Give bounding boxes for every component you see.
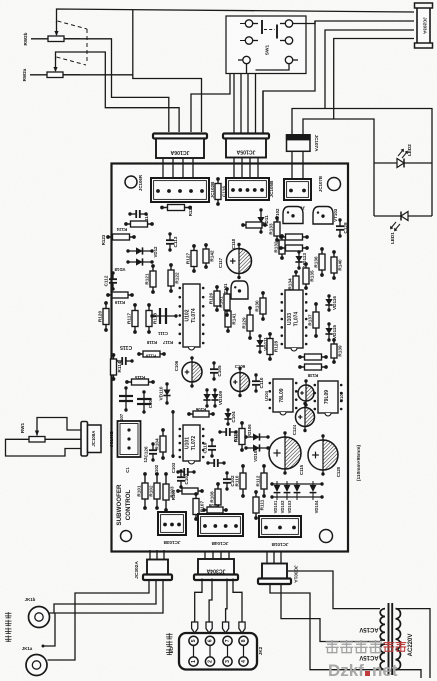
capacitor C109	[231, 364, 250, 397]
resistor R135	[303, 262, 315, 290]
resistor R131	[241, 222, 267, 228]
wire JC301A to transformer tap	[281, 584, 380, 642]
diode VD108	[203, 388, 210, 407]
resistor R115	[125, 375, 155, 385]
resistor R120	[97, 301, 109, 332]
wire stubs JC104B to JC304A	[204, 551, 206, 559]
diode VD106	[244, 424, 269, 441]
capacitor C123	[296, 402, 315, 432]
capacitor C118	[218, 243, 252, 279]
resistor R107	[193, 492, 205, 521]
resistor R129	[241, 306, 253, 340]
wire JC301A to transformer top	[288, 571, 380, 609]
capacitor C114	[128, 210, 149, 224]
resistor R136	[313, 247, 325, 277]
wire JC203A pin3	[325, 30, 414, 109]
mounting hole JC106R	[125, 174, 143, 191]
connector JK2	[179, 622, 263, 670]
capacitor C127	[206, 459, 225, 467]
wire SW1 bottom-left circle stub	[246, 63, 248, 73]
wire stubs JC107A into board	[291, 152, 293, 180]
potentiometer RW1	[20, 421, 45, 442]
capacitor C115b	[269, 431, 304, 475]
IC U104	[269, 379, 298, 415]
resistor R143	[298, 364, 328, 378]
diode VD116	[325, 294, 336, 311]
wire JC304A pin3 to JK2	[226, 579, 227, 623]
resistor R103	[163, 472, 175, 512]
resistor R101	[136, 472, 148, 510]
diode VD109	[211, 388, 222, 407]
resistor R119	[106, 292, 134, 305]
capacitor C105	[210, 361, 222, 380]
diode VD11	[257, 208, 268, 233]
IC U105	[314, 381, 343, 416]
capacitor C128	[336, 218, 348, 237]
resistor R106	[187, 407, 215, 417]
connector JC105A	[223, 134, 269, 158]
resistor R123	[101, 234, 136, 245]
wire SW1 bottom-right circle stub	[256, 63, 290, 70]
wire SW1 pins to JC105A	[233, 74, 235, 133]
resistor R122	[168, 263, 180, 293]
capacitor C108	[137, 390, 153, 413]
connector JC102B	[151, 178, 215, 202]
wire JC302A pin1 to JK1a	[48, 580, 150, 660]
diode VD105	[244, 444, 269, 461]
capacitor C102	[223, 471, 235, 490]
switch SW1	[226, 16, 306, 74]
wire JC302A pin2 to JK1b	[50, 580, 157, 613]
wire SW1 to JC106A pin3	[191, 73, 230, 132]
wire RW1 right lead	[45, 438, 81, 440]
potentiometer RW2b	[23, 22, 80, 45]
wire mid vertical	[172, 410, 174, 458]
transistor VT101	[223, 281, 248, 299]
wire RW2a wiper to JC106A pin2	[56, 52, 180, 132]
IC U102	[179, 284, 205, 350]
wire JC107A pinB to LED rail inner	[303, 119, 374, 216]
resistor R138	[298, 354, 328, 360]
connector JC203A	[415, 3, 433, 48]
connector JC301A	[258, 564, 299, 585]
resistor R110	[234, 464, 246, 498]
IC U103	[281, 290, 308, 351]
resistor R104	[154, 428, 166, 460]
capacitor C122	[298, 379, 314, 406]
resistor R111	[253, 490, 265, 520]
connector JC105B	[226, 178, 274, 200]
wire JC203A pin4	[334, 39, 414, 120]
resistor R133	[268, 216, 280, 242]
resistor R134	[287, 270, 299, 298]
resistor R116	[137, 351, 166, 359]
resistor R121	[144, 264, 156, 294]
connector JC103B	[158, 512, 186, 545]
transistor VT102	[275, 207, 303, 224]
wire RW2b lead to JC106A pin1	[64, 39, 169, 132]
wire JC302A pin3 ground	[43, 580, 163, 646]
capacitor C113b	[114, 357, 133, 365]
wire RW2a lead to junction	[63, 74, 133, 76]
transformer T1	[380, 603, 400, 675]
connector JC108A	[81, 422, 101, 457]
capacitor C110	[252, 373, 264, 392]
wire JC107A pinA to LED rail right	[292, 109, 432, 217]
resistor R126	[208, 285, 220, 312]
diode bridge VD101-VD104	[270, 481, 323, 513]
wire RW2b wiper to JC203A	[57, 9, 415, 23]
resistor R118	[146, 303, 158, 334]
resistor R161	[218, 287, 230, 317]
text audio input	[5, 612, 12, 619]
wire JC301A to transformer bottom	[270, 584, 380, 670]
connector JC304A	[194, 559, 238, 580]
transformer leads	[380, 639, 385, 641]
connector JC106A	[153, 134, 207, 159]
capacitor C119	[203, 438, 217, 457]
mounting hole bottom-right	[320, 530, 333, 543]
resistor R139	[331, 338, 343, 364]
resistor R140	[331, 250, 343, 280]
wire SW1 to JC203A pin2	[292, 21, 414, 24]
diode C104	[224, 408, 235, 425]
connector JC107A	[287, 135, 320, 153]
capacitor C111	[150, 308, 177, 336]
wire stubs JC103B to JC302A	[149, 550, 151, 560]
capacitor C121	[218, 428, 238, 442]
capacitor C113	[166, 232, 178, 251]
potentiometer RW2a	[22, 58, 80, 81]
resistor R130	[254, 291, 266, 321]
connector JC302A	[134, 560, 172, 581]
resistor R102	[148, 472, 160, 510]
resistor R145	[279, 245, 309, 251]
wire JC304A pin2 to JK2	[209, 579, 212, 623]
resistor R127	[185, 244, 197, 273]
wire AC220V top lead	[396, 609, 431, 678]
wire RW1 wiper	[37, 418, 81, 431]
watermark text	[326, 640, 407, 680]
wire AC220V bottom lead	[396, 670, 422, 678]
PCB board outline	[112, 164, 349, 552]
diode VD111	[256, 334, 267, 353]
resistor R141	[225, 305, 237, 333]
jack JK1a	[22, 646, 47, 676]
resistor R117	[126, 303, 138, 334]
LED LED2	[374, 144, 432, 168]
diode VD12	[126, 246, 158, 258]
diode VD110	[158, 382, 170, 404]
resistor C116	[215, 177, 227, 206]
resistor R105	[171, 488, 204, 500]
resistor R142	[203, 243, 215, 269]
wire junction to JC106A pin4	[133, 9, 202, 132]
gang link dashed	[57, 21, 88, 65]
jack JK1b	[25, 597, 50, 628]
resistor R114b	[111, 353, 123, 381]
resistor R108	[209, 482, 221, 512]
capacitor C101	[177, 469, 189, 488]
transistor VT103	[313, 207, 338, 225]
LED LED1	[374, 212, 432, 244]
capacitor C112	[104, 271, 118, 290]
diode VD18	[114, 258, 154, 272]
capacitor C106	[174, 356, 202, 387]
capacitor C120	[308, 434, 341, 477]
resistor R132	[273, 234, 285, 260]
connector JC104B	[198, 514, 243, 546]
capacitor C103	[171, 462, 196, 476]
resistor R137	[307, 302, 319, 338]
capacitor C107	[119, 386, 133, 424]
resistor R124	[116, 221, 154, 232]
resistor R109	[202, 503, 228, 513]
wire JC304A pin4 to JK2	[233, 579, 242, 623]
resistor R114	[233, 421, 245, 452]
connector JC101B	[259, 516, 301, 547]
wire stubs JC106A to JC102B	[162, 159, 164, 178]
resistor R112	[255, 464, 267, 498]
scan noise	[0, 0, 1, 1]
resistor R128	[267, 332, 279, 361]
mounting hole JC107B	[318, 176, 341, 192]
text speaker I/O	[166, 633, 173, 640]
resistor R125	[160, 205, 193, 217]
mounting hole bottom-left	[121, 531, 132, 542]
connector JC111A	[284, 179, 311, 211]
connector JC108B	[109, 421, 141, 457]
wire RW1 left lead loop	[6, 439, 82, 456]
diode VD113	[295, 250, 306, 269]
IC U101	[179, 425, 205, 464]
resistor R144	[279, 234, 309, 240]
wire JC203A pin2 branch to JC105A	[263, 21, 315, 133]
text SUBWOOFER CONTROL	[116, 484, 132, 525]
capacitor C126	[144, 442, 158, 461]
wire stubs JC101B to JC301A	[266, 552, 268, 564]
diode VD115	[325, 322, 336, 341]
wire JC304A pin1 to JK2	[195, 579, 202, 623]
wire stubs JC105A to JC105B	[233, 158, 235, 178]
